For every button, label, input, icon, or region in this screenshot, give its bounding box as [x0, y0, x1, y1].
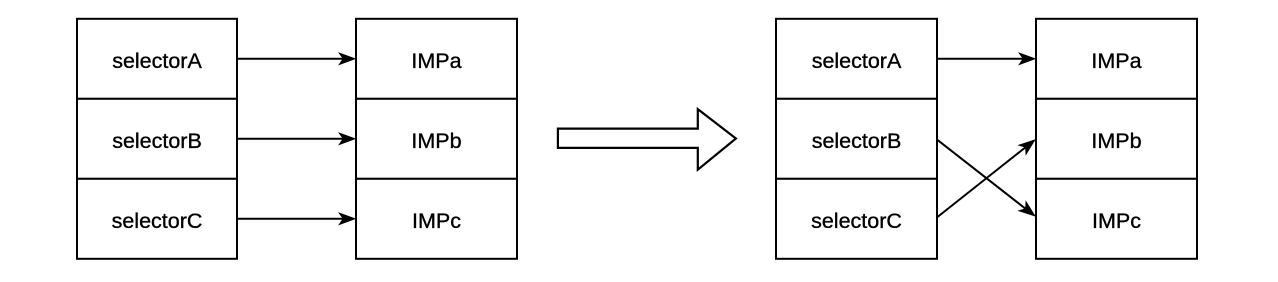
svg-text:selectorB: selectorB	[812, 129, 902, 153]
svg-text:selectorB: selectorB	[112, 129, 202, 153]
box IMPb left	[356, 99, 517, 179]
box IMPa right	[1036, 19, 1197, 99]
big transform arrow	[558, 109, 736, 170]
box selectorA left	[77, 19, 237, 99]
arrow selectorB to IMPc right crossing down	[937, 140, 1040, 222]
box selectorB right	[776, 99, 937, 179]
svg-text:IMPc: IMPc	[1092, 209, 1141, 233]
box IMPc right	[1036, 179, 1197, 259]
box selectorB left	[77, 99, 237, 179]
svg-text:IMPa: IMPa	[1091, 49, 1141, 73]
arrow selectorA to IMPa right	[937, 52, 1036, 65]
svg-text:selectorC: selectorC	[112, 209, 203, 233]
box IMPb right	[1036, 99, 1197, 179]
arrow selectorB to IMPb left	[237, 132, 356, 145]
box selectorC right	[776, 179, 937, 259]
box selectorA right	[776, 19, 937, 99]
svg-text:IMPb: IMPb	[411, 129, 461, 153]
svg-text:selectorC: selectorC	[811, 209, 902, 233]
box selectorC left	[77, 179, 237, 259]
svg-text:IMPa: IMPa	[411, 49, 461, 73]
arrow selectorC to IMPc left	[237, 212, 356, 225]
svg-text:selectorA: selectorA	[812, 49, 902, 73]
svg-text:selectorA: selectorA	[112, 49, 202, 73]
svg-text:IMPb: IMPb	[1091, 129, 1141, 153]
svg-text:IMPc: IMPc	[412, 209, 461, 233]
arrow selectorC to IMPb right crossing up	[937, 134, 1040, 218]
box IMPa left	[356, 19, 517, 99]
box IMPc left	[356, 179, 517, 259]
arrow selectorA to IMPa left	[237, 52, 356, 65]
